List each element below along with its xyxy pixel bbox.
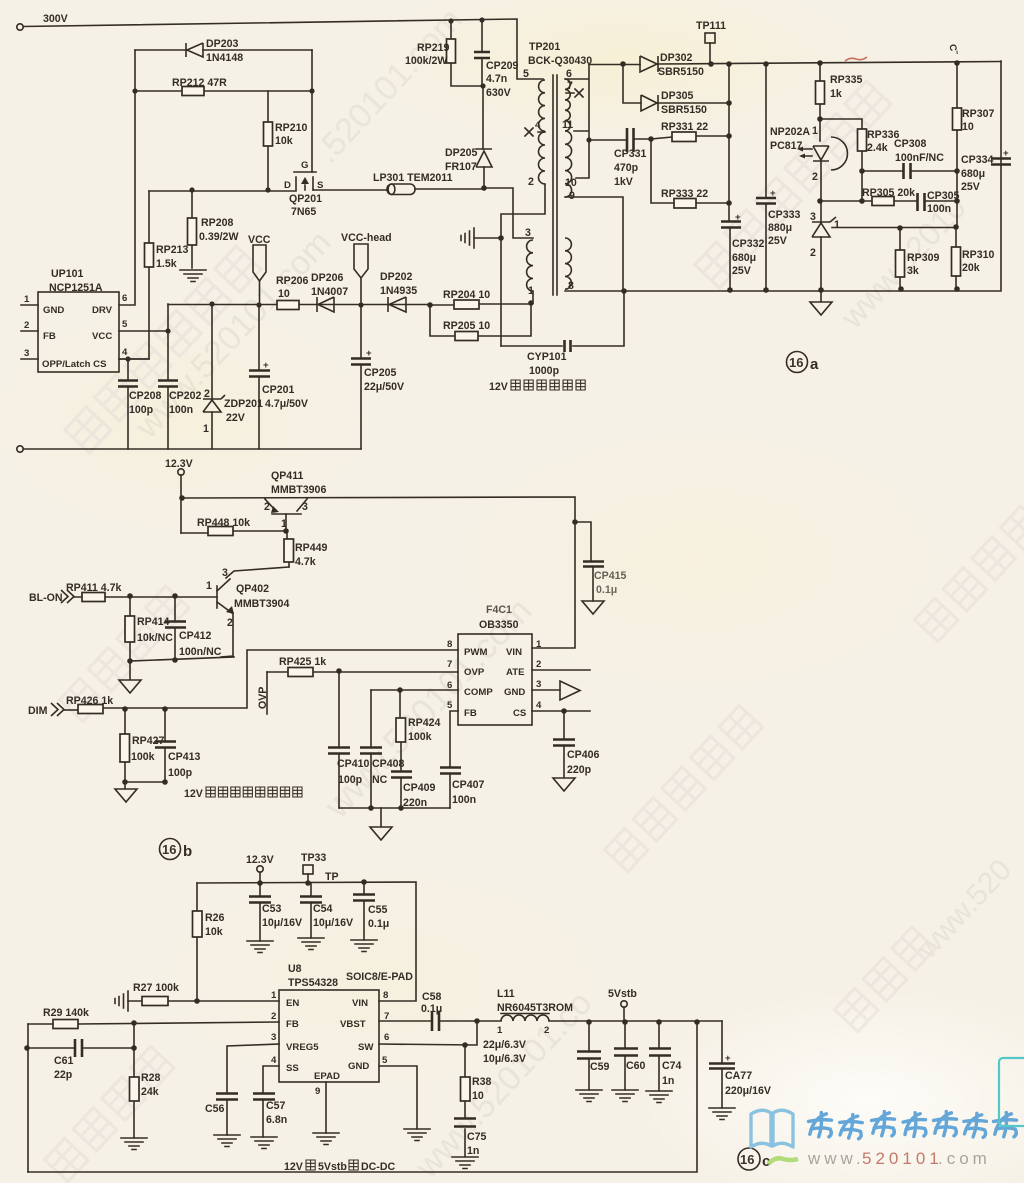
svg-text:1: 1 xyxy=(271,990,277,1001)
svg-text:22μ/50V: 22μ/50V xyxy=(364,381,404,393)
svg-text:16: 16 xyxy=(162,842,176,857)
pin stubs UP101 xyxy=(21,305,168,359)
testpoint TP111 xyxy=(705,33,715,43)
tap 4 (cut) xyxy=(525,128,545,136)
svg-text:RP414: RP414 xyxy=(137,616,169,628)
resistor RP414 xyxy=(129,596,131,661)
wire: rectifier cathode vertical xyxy=(728,64,730,221)
svg-text:100n: 100n xyxy=(169,404,193,416)
wire: rectifier top row xyxy=(589,62,1001,65)
svg-text:6.8n: 6.8n xyxy=(266,1114,287,1126)
svg-text:24k: 24k xyxy=(141,1086,159,1098)
svg-text:2: 2 xyxy=(227,617,233,629)
svg-text:C75: C75 xyxy=(467,1131,487,1143)
output chevron GND xyxy=(532,689,560,691)
svg-text:TP33: TP33 xyxy=(301,852,326,864)
output rail dots xyxy=(586,1019,592,1025)
red check mark xyxy=(845,57,867,61)
svg-text:COMP: COMP xyxy=(464,687,493,698)
svg-text:+: + xyxy=(735,212,741,223)
svg-text:.com: .com xyxy=(938,1149,991,1168)
ground: compensation rail xyxy=(339,807,450,809)
capacitor CP334 xyxy=(991,159,1011,165)
resistor RP427 xyxy=(124,709,126,782)
capacitor CP412 xyxy=(174,596,176,660)
resistor RP331 xyxy=(648,136,654,142)
resistor RP210 xyxy=(267,91,269,190)
fuse LP301 TEM2011 xyxy=(387,184,415,195)
svg-text:3: 3 xyxy=(536,679,541,690)
green swoosh xyxy=(768,1158,798,1164)
transistor QP402 MMBT3904 xyxy=(217,579,233,657)
svg-text:+: + xyxy=(770,188,776,199)
svg-text:R38: R38 xyxy=(472,1076,492,1088)
svg-text:GND: GND xyxy=(504,687,525,698)
svg-text:9: 9 xyxy=(315,1086,320,1097)
svg-text:CP408: CP408 xyxy=(372,758,404,770)
diode DP305 SBR5150 xyxy=(623,64,729,103)
svg-text:1: 1 xyxy=(812,125,818,137)
svg-text:6: 6 xyxy=(122,293,127,304)
svg-text:100k: 100k xyxy=(131,751,155,763)
svg-text:22V: 22V xyxy=(226,412,245,424)
svg-text:TP201: TP201 xyxy=(529,41,560,53)
svg-text:220μ/16V: 220μ/16V xyxy=(725,1085,771,1097)
net flag VCC xyxy=(253,245,266,281)
svg-text:100n: 100n xyxy=(927,203,951,215)
svg-text:RP424: RP424 xyxy=(408,717,440,729)
resistor RP335 xyxy=(819,63,821,119)
capacitor C53 xyxy=(259,883,261,941)
svg-text:1: 1 xyxy=(834,219,840,231)
svg-text:EPAD: EPAD xyxy=(314,1071,340,1082)
svg-text:C59: C59 xyxy=(590,1061,610,1073)
resistor RP448 xyxy=(181,531,286,533)
resistor RP424 / capacitor CP409 xyxy=(400,690,401,808)
svg-text:3: 3 xyxy=(271,1032,276,1043)
svg-text:16: 16 xyxy=(740,1152,754,1167)
svg-text:ZDP201: ZDP201 xyxy=(224,398,263,410)
svg-text:10μ/16V: 10μ/16V xyxy=(262,917,302,929)
ground: GND pin5 xyxy=(379,1066,417,1129)
diode DP205 FR107 xyxy=(483,86,484,187)
primary winding 5-4-2 xyxy=(539,80,545,131)
svg-text:QP402: QP402 xyxy=(236,583,269,595)
resistor RP204 xyxy=(427,302,433,308)
svg-text:2: 2 xyxy=(536,659,541,670)
svg-text:a: a xyxy=(810,356,819,373)
svg-text:NP202A: NP202A xyxy=(770,126,810,138)
wire: to pin3 xyxy=(484,188,533,238)
svg-text:UP101: UP101 xyxy=(51,268,83,280)
resistor R28 xyxy=(133,1023,135,1138)
svg-text:OVP: OVP xyxy=(257,687,269,709)
cyan corner box xyxy=(999,1058,1024,1126)
ground: EPAD xyxy=(325,1082,327,1133)
svg-text:1N4935: 1N4935 xyxy=(380,285,417,297)
svg-text:1N4007: 1N4007 xyxy=(311,286,348,298)
figure label 16c xyxy=(738,1148,760,1170)
svg-text:100p: 100p xyxy=(168,767,193,779)
svg-text:www.: www. xyxy=(807,1149,865,1168)
wire: 12.3V feed xyxy=(180,475,182,533)
svg-text:R29 140k: R29 140k xyxy=(43,1007,89,1019)
svg-text:1: 1 xyxy=(203,423,209,435)
svg-text:NCP1251A: NCP1251A xyxy=(49,282,103,294)
svg-text:1: 1 xyxy=(281,518,287,530)
diode DP206 xyxy=(317,297,334,312)
svg-text:100k: 100k xyxy=(408,731,432,743)
svg-text:VIN: VIN xyxy=(506,647,522,658)
ground: secondary xyxy=(818,287,824,293)
capacitor CYP101 xyxy=(501,291,624,346)
svg-text:0.1μ: 0.1μ xyxy=(368,918,389,930)
svg-text:RP205 10: RP205 10 xyxy=(443,320,490,332)
svg-text:16: 16 xyxy=(789,355,803,370)
svg-text:FB: FB xyxy=(286,1019,299,1030)
svg-text:RP307: RP307 xyxy=(962,108,994,120)
svg-text:220p: 220p xyxy=(567,764,592,776)
svg-text:D: D xyxy=(284,180,291,191)
svg-text:2: 2 xyxy=(810,247,816,259)
svg-text:1000p: 1000p xyxy=(529,365,560,377)
svg-text:11: 11 xyxy=(562,119,573,131)
svg-text:b: b xyxy=(183,843,192,860)
svg-text:CP334: CP334 xyxy=(961,154,993,166)
svg-text:SW: SW xyxy=(358,1042,374,1053)
svg-text:VCC: VCC xyxy=(92,331,112,342)
resistor RP336 xyxy=(820,119,862,171)
svg-text:MMBT3904: MMBT3904 xyxy=(234,598,289,610)
IC U401 OB3350 xyxy=(458,634,532,725)
resistor RP309 xyxy=(899,228,901,289)
svg-text:ATE: ATE xyxy=(506,667,525,678)
resistor R38 / capacitor C75 xyxy=(464,1045,466,1156)
capacitor CP408 xyxy=(370,690,372,808)
svg-text:4.7k: 4.7k xyxy=(295,556,316,568)
resistor RP213 xyxy=(119,191,149,359)
svg-text:DP203: DP203 xyxy=(206,38,238,50)
svg-text:2.4k: 2.4k xyxy=(867,142,888,154)
svg-text:1: 1 xyxy=(536,639,542,650)
diode DP203 xyxy=(135,49,312,51)
svg-text:QP411: QP411 xyxy=(271,470,304,482)
svg-text:8: 8 xyxy=(383,990,389,1001)
wire: VCC rail xyxy=(168,304,430,306)
svg-text:PC817: PC817 xyxy=(770,140,802,152)
capacitor C58 xyxy=(379,1020,477,1022)
svg-text:1kV: 1kV xyxy=(614,176,633,188)
svg-text:GND: GND xyxy=(43,305,64,316)
svg-text:520101: 520101 xyxy=(862,1149,943,1168)
resistor RP219 xyxy=(451,21,483,86)
svg-text:C53: C53 xyxy=(262,903,282,915)
wire: PWM net xyxy=(103,650,458,708)
IC U8 TPS54328 xyxy=(279,990,379,1082)
resistor RP310 xyxy=(955,227,957,289)
ground: RP208 xyxy=(180,270,206,282)
svg-text:100p: 100p xyxy=(129,404,154,416)
pin7 cut mark xyxy=(566,89,583,97)
svg-text:G: G xyxy=(301,160,308,171)
svg-text:20k: 20k xyxy=(962,262,980,274)
svg-text:R26: R26 xyxy=(205,912,225,924)
capacitor C60 xyxy=(624,1022,626,1090)
mosfet QP201 7N65 xyxy=(294,172,316,190)
svg-text:+: + xyxy=(366,348,372,359)
svg-text:SBR5150: SBR5150 xyxy=(661,104,707,116)
net flag VCC-head xyxy=(354,244,368,278)
svg-text:C57: C57 xyxy=(266,1100,286,1112)
capacitor CP332 xyxy=(721,222,741,228)
svg-text:OB3350: OB3350 xyxy=(479,619,519,631)
svg-text:12.3V: 12.3V xyxy=(246,854,274,866)
figure label 16a xyxy=(787,352,808,373)
optocoupler NP202A PC817 xyxy=(820,119,821,201)
wire: pin2 staircase to CYP101 xyxy=(501,184,545,346)
svg-text:22p: 22p xyxy=(54,1069,73,1081)
svg-text:1: 1 xyxy=(24,294,30,305)
svg-text:4: 4 xyxy=(536,700,542,711)
svg-text:MMBT3906: MMBT3906 xyxy=(271,484,326,496)
svg-text:CP406: CP406 xyxy=(567,749,599,761)
svg-text:10: 10 xyxy=(278,288,290,300)
watermark band 8 xyxy=(60,586,189,722)
svg-text:0.39/2W: 0.39/2W xyxy=(199,231,238,243)
resistor RP333 xyxy=(651,139,729,203)
ground: DIM divider xyxy=(125,781,165,783)
svg-text:CP208: CP208 xyxy=(129,390,161,402)
wire: feedback bottom rail xyxy=(28,1022,697,1172)
svg-text:RP448 10k: RP448 10k xyxy=(197,517,250,529)
svg-text:SOIC8/E-PAD: SOIC8/E-PAD xyxy=(346,971,413,983)
svg-text:CP410: CP410 xyxy=(337,758,369,770)
svg-text:12V: 12V xyxy=(184,788,203,800)
svg-text:1n: 1n xyxy=(662,1075,674,1087)
capacitor CP308 xyxy=(862,170,957,172)
svg-text:RP425 1k: RP425 1k xyxy=(279,656,326,668)
svg-text:1k: 1k xyxy=(830,88,842,100)
svg-text:FB: FB xyxy=(464,708,477,719)
capacitor CP406 xyxy=(532,710,590,712)
svg-text:RP204 10: RP204 10 xyxy=(443,289,490,301)
wire: 300V top rail xyxy=(23,19,543,79)
svg-text:DIM: DIM xyxy=(28,705,48,717)
wire: emitter ground row xyxy=(130,657,234,661)
watermark band 10 xyxy=(45,1046,174,1182)
svg-text:RP219: RP219 xyxy=(417,42,449,54)
svg-text:100p: 100p xyxy=(338,774,363,786)
wire: pin6 to rectifiers xyxy=(565,65,589,178)
svg-text:10k: 10k xyxy=(205,926,223,938)
svg-text:VBST: VBST xyxy=(340,1019,366,1030)
lower-right winding 8 xyxy=(565,238,571,289)
svg-text:10k/NC: 10k/NC xyxy=(137,632,173,644)
wire: COMP row xyxy=(371,689,458,691)
svg-text:12.3V: 12.3V xyxy=(165,458,193,470)
svg-text:C55: C55 xyxy=(368,904,388,916)
svg-text:CP331: CP331 xyxy=(614,148,646,160)
capacitor C55 xyxy=(363,882,365,940)
svg-text:10μ/6.3V: 10μ/6.3V xyxy=(483,1053,526,1065)
svg-text:+: + xyxy=(1003,148,1009,159)
svg-text:25V: 25V xyxy=(768,235,787,247)
svg-text:5: 5 xyxy=(523,68,529,80)
svg-text:8: 8 xyxy=(447,639,453,650)
wire: left feedback vertical xyxy=(27,1024,29,1172)
upper-right winding 6-11-10-9 xyxy=(565,79,570,131)
svg-text:6: 6 xyxy=(384,1032,389,1043)
capacitor C56 xyxy=(227,1044,279,1135)
svg-text:C56: C56 xyxy=(205,1103,225,1115)
svg-text:CP205: CP205 xyxy=(364,367,396,379)
svg-text:10: 10 xyxy=(565,177,577,189)
svg-text:4: 4 xyxy=(122,347,128,358)
ground: QP402 xyxy=(129,661,131,679)
svg-text:3: 3 xyxy=(525,227,531,239)
svg-text:RP333 22: RP333 22 xyxy=(661,188,708,200)
resistor RP208 xyxy=(189,187,194,192)
lower-left winding 3-1 xyxy=(527,240,533,291)
wire: gate vertical xyxy=(311,50,313,172)
svg-text:4.7n: 4.7n xyxy=(486,73,507,85)
svg-text:CP333: CP333 xyxy=(768,209,800,221)
wire: SW row xyxy=(379,1021,477,1045)
svg-text:3: 3 xyxy=(222,567,228,579)
svg-text:100n: 100n xyxy=(452,794,476,806)
svg-text:3: 3 xyxy=(810,211,816,223)
watermark band 12 xyxy=(835,927,936,1032)
svg-text:5: 5 xyxy=(382,1055,388,1066)
svg-text:C60: C60 xyxy=(626,1060,646,1072)
svg-text:100n/NC: 100n/NC xyxy=(179,646,222,658)
svg-text:R28: R28 xyxy=(141,1072,161,1084)
svg-text:680μ: 680μ xyxy=(961,168,985,180)
svg-text:1: 1 xyxy=(206,580,212,592)
svg-text:VCC-head: VCC-head xyxy=(341,232,392,244)
svg-text:3: 3 xyxy=(24,348,29,359)
capacitor C54 xyxy=(310,883,312,938)
figure label 16b xyxy=(160,839,181,860)
svg-text:NR6045T3ROM: NR6045T3ROM xyxy=(497,1002,573,1014)
svg-text:VCC: VCC xyxy=(248,234,271,246)
svg-text:CP209: CP209 xyxy=(486,60,518,72)
wire: VCC ground rail xyxy=(23,448,361,450)
zener ZDP201 xyxy=(209,301,214,306)
svg-text:RP411 4.7k: RP411 4.7k xyxy=(66,582,121,594)
svg-text:2: 2 xyxy=(204,388,210,400)
svg-text:1: 1 xyxy=(528,285,534,297)
svg-text:OVP: OVP xyxy=(464,667,485,678)
svg-text:BCK-Q30430: BCK-Q30430 xyxy=(528,55,592,67)
svg-text:RP426 1k: RP426 1k xyxy=(66,695,113,707)
svg-text:4.7μ/50V: 4.7μ/50V xyxy=(265,398,308,410)
svg-text:U8: U8 xyxy=(288,963,302,975)
capacitor C57 xyxy=(263,1066,279,1137)
svg-text:TP: TP xyxy=(325,871,339,883)
resistor RP307 xyxy=(956,63,958,227)
svg-text:7: 7 xyxy=(567,80,573,92)
svg-text:10k: 10k xyxy=(275,135,293,147)
svg-text:CP412: CP412 xyxy=(179,630,211,642)
svg-text:4: 4 xyxy=(535,120,541,131)
resistor RP449 xyxy=(287,531,289,567)
svg-text:CA77: CA77 xyxy=(725,1070,752,1082)
svg-text:CP409: CP409 xyxy=(403,782,435,794)
svg-text:CS: CS xyxy=(513,708,527,719)
capacitor CP208 xyxy=(125,356,130,361)
capacitor C59 xyxy=(588,1022,590,1090)
svg-text:C58: C58 xyxy=(422,991,442,1003)
svg-text:QP201: QP201 xyxy=(289,193,322,205)
wire: source row xyxy=(149,190,387,191)
resistor R29 xyxy=(28,1022,279,1024)
svg-text:22μ/6.3V: 22μ/6.3V xyxy=(483,1039,526,1051)
svg-text:RP309: RP309 xyxy=(907,252,939,264)
svg-text:CYP101: CYP101 xyxy=(527,351,567,363)
svg-text:EN: EN xyxy=(286,998,299,1009)
svg-text:C74: C74 xyxy=(662,1060,682,1072)
svg-text:DP202: DP202 xyxy=(380,271,412,283)
wire: DRV drive vertical xyxy=(119,50,135,305)
svg-text:3k: 3k xyxy=(907,265,919,277)
svg-text:5Vstb: 5Vstb xyxy=(608,988,637,1000)
svg-text:RP331 22: RP331 22 xyxy=(661,121,708,133)
svg-text:RP212 47R: RP212 47R xyxy=(172,77,227,89)
svg-text:BL-ON: BL-ON xyxy=(29,592,63,604)
capacitor CP209 xyxy=(481,20,483,86)
svg-text:10: 10 xyxy=(962,121,974,133)
IC UP101 NCP1251A xyxy=(38,292,119,372)
svg-text:10: 10 xyxy=(472,1090,484,1102)
svg-text:DP302: DP302 xyxy=(660,52,692,64)
svg-text:2: 2 xyxy=(24,320,29,331)
svg-text:RP210: RP210 xyxy=(275,122,307,134)
svg-text:SS: SS xyxy=(286,1063,299,1074)
watermark band 9 xyxy=(605,705,763,871)
watermark band 6 xyxy=(915,506,1024,642)
diode DP202 xyxy=(388,297,406,312)
svg-text:DP206: DP206 xyxy=(311,272,343,284)
transistor QP411 MMBT3906 xyxy=(265,499,307,531)
svg-text:FR107: FR107 xyxy=(445,161,477,173)
resistor RP205 xyxy=(430,303,531,336)
svg-text:1: 1 xyxy=(497,1025,503,1036)
svg-text:470p: 470p xyxy=(614,162,639,174)
resistor RP425 xyxy=(267,671,458,673)
svg-text:SBR5150: SBR5150 xyxy=(658,66,704,78)
svg-text:DC-DC: DC-DC xyxy=(361,1161,395,1173)
svg-text:GND: GND xyxy=(348,1061,369,1072)
wire: ATE stub xyxy=(532,669,590,671)
svg-text:RP208: RP208 xyxy=(201,217,233,229)
svg-text:2: 2 xyxy=(812,171,818,183)
svg-text:R27 100k: R27 100k xyxy=(133,982,179,994)
transformer core xyxy=(553,75,557,295)
svg-text:2: 2 xyxy=(264,501,270,513)
svg-text:C54: C54 xyxy=(313,903,333,915)
inductor L11 NR6045T3ROM xyxy=(477,1020,722,1022)
capacitor CP201 xyxy=(258,305,260,449)
svg-text:F4C1: F4C1 xyxy=(486,604,512,616)
terminal: 300V input xyxy=(17,24,23,30)
svg-text:1N4148: 1N4148 xyxy=(206,52,243,64)
svg-text:RP305 20k: RP305 20k xyxy=(862,187,915,199)
capacitor C74 xyxy=(658,1022,660,1091)
svg-text:NC: NC xyxy=(372,774,388,786)
svg-text:RP335: RP335 xyxy=(830,74,862,86)
wire: supply row to VIN xyxy=(182,497,575,648)
